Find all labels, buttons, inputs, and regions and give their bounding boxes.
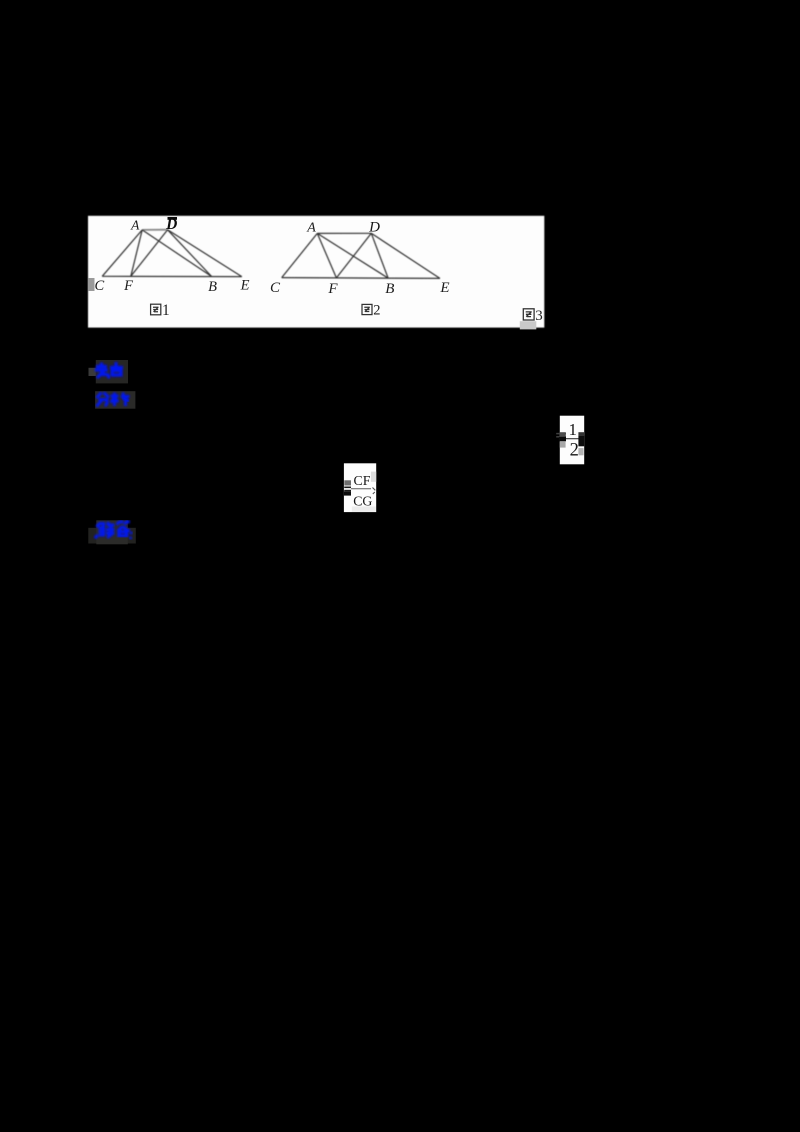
svg-text:E: E: [439, 280, 449, 296]
white panel: [88, 216, 544, 328]
fig2 wire CE: [282, 277, 440, 280]
fraction cfcg equals black patch: [344, 492, 351, 496]
fig1 wire CA: [102, 230, 142, 276]
fig2 wire AF: [317, 233, 336, 278]
heading2 blue glyph fen: [97, 393, 110, 407]
fig1 wire CE: [102, 275, 242, 277]
fig1 wire AF: [131, 230, 142, 276]
heading3 wide gray backing: [88, 528, 136, 544]
svg-text:D: D: [368, 219, 380, 235]
fraction half right gray patch: [578, 448, 583, 455]
svg-text:F: F: [327, 281, 338, 297]
fraction half equals on black: [556, 434, 566, 437]
fraction half bar: [566, 438, 580, 439]
caption fig2 glyph tu: [362, 304, 372, 314]
heading2 blue tail: [123, 398, 129, 401]
heading3 blue glyph jie: [95, 522, 115, 538]
heading1 gray backing box: [96, 360, 128, 383]
fraction half left gray patch: [560, 442, 566, 448]
svg-text:CF: CF: [354, 473, 371, 488]
gray square at panel left edge: [88, 278, 95, 291]
heading3 gray backing box: [96, 520, 128, 544]
fig2 wire DE: [371, 233, 440, 278]
fraction cfcg light smudge top right: [371, 472, 376, 482]
fraction cfcg equals gray patch: [344, 480, 351, 485]
svg-text:1: 1: [162, 302, 170, 319]
fraction cfcg bar: [351, 488, 371, 489]
figure1: [102, 230, 242, 277]
svg-text:1: 1: [569, 420, 578, 439]
svg-text:B: B: [208, 279, 217, 295]
svg-text:2: 2: [373, 303, 380, 319]
svg-text:B: B: [385, 281, 394, 297]
svg-text:F: F: [123, 278, 133, 294]
heading2 gray backing box: [95, 391, 135, 409]
fraction cfcg right squiggle: [373, 488, 376, 495]
fig2 wire DB: [371, 233, 388, 278]
fig1 wire AB: [142, 230, 211, 277]
figure2: [282, 233, 440, 278]
fraction half right dark patch: [578, 432, 584, 435]
fraction half left dark patch: [560, 432, 566, 436]
svg-text:A: A: [130, 218, 140, 233]
heading3 blue colon: [129, 532, 132, 540]
fig2 wire AD: [317, 232, 371, 234]
fig1 label D top bar: [168, 217, 178, 220]
fraction cfcg equals sign: [344, 487, 351, 490]
fig2 wire DF: [336, 233, 371, 278]
caption fig1 glyph tu: [151, 304, 161, 315]
fig2 wire CA: [282, 233, 318, 277]
heading3 blue glyph da: [117, 522, 130, 536]
svg-text:3: 3: [535, 308, 543, 324]
fraction cfcg white box: [344, 463, 376, 512]
heading1 blue glyph dian: [110, 362, 123, 378]
fig1 wire AD: [142, 229, 167, 231]
svg-text:A: A: [306, 220, 316, 235]
svg-text:2: 2: [570, 440, 579, 460]
fig2 wire AB: [317, 233, 388, 278]
heading1 gray nub: [89, 368, 96, 376]
fig1 wire DB: [168, 230, 212, 277]
svg-text:C: C: [270, 280, 281, 296]
fig1 wire DE: [168, 230, 242, 277]
fraction half white box: [560, 416, 584, 465]
svg-text:C: C: [94, 278, 104, 294]
fraction half right black tab: [578, 436, 584, 447]
gray rect below fig3 caption: [520, 321, 537, 329]
caption fig3 glyph tu: [523, 309, 534, 320]
svg-text:E: E: [240, 277, 250, 293]
heading1 blue glyph kao: [95, 363, 109, 379]
fraction cfcg bottom light strip: [352, 507, 376, 512]
svg-text:CG: CG: [353, 494, 372, 509]
fraction half left black tab: [559, 437, 566, 441]
fig1 wire DF: [131, 230, 168, 276]
heading2 blue glyph xi: [111, 393, 130, 407]
